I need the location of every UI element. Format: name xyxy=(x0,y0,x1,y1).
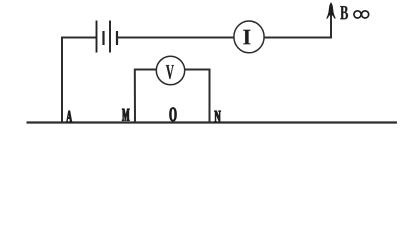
label B xyxy=(340,6,348,19)
battery short plate 2 xyxy=(116,31,118,45)
arrowhead pointing up xyxy=(326,2,336,18)
voltmeter circle xyxy=(156,56,184,84)
infinity symbol xyxy=(354,11,369,18)
node label A xyxy=(66,111,72,123)
voltmeter label V xyxy=(166,65,174,79)
wire left vertical from battery loop down to rail at A xyxy=(61,37,63,123)
battery (two cells) xyxy=(97,21,118,53)
wire vertical up to arrow xyxy=(330,8,332,38)
ammeter label I xyxy=(243,30,250,45)
wire voltmeter right vertical (node N) xyxy=(209,69,211,123)
wire voltmeter left horizontal xyxy=(134,69,157,71)
wire top horizontal from left corner to battery xyxy=(61,37,96,39)
node label N xyxy=(215,111,221,123)
wire battery to ammeter xyxy=(117,37,234,39)
node label M xyxy=(122,109,129,121)
battery long plate 1 xyxy=(96,21,98,53)
battery short plate 1 xyxy=(102,31,104,45)
wire ammeter to right corner xyxy=(264,37,332,39)
wire voltmeter right horizontal xyxy=(184,69,210,71)
ammeter circle xyxy=(234,21,264,53)
resistance wire rail xyxy=(27,121,398,123)
battery long plate 2 xyxy=(109,21,111,53)
node label O xyxy=(170,108,177,122)
wire voltmeter left vertical (node M) xyxy=(134,69,136,123)
